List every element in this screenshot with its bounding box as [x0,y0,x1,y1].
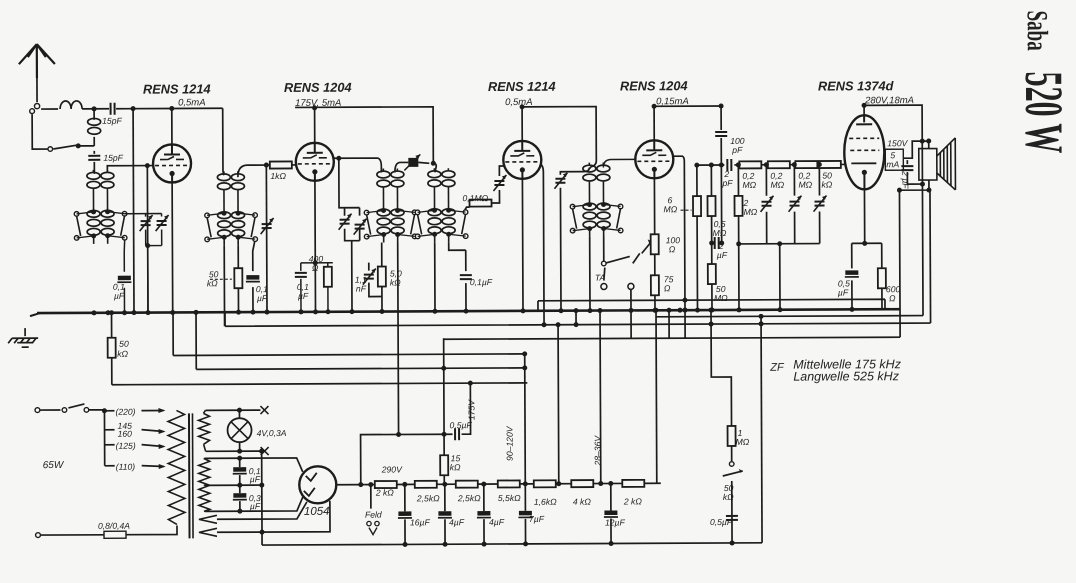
svg-text:50: 50 [119,339,129,349]
svg-text:kΩ: kΩ [450,462,461,472]
svg-text:280V,18mA: 280V,18mA [864,95,914,106]
svg-text:MΩ: MΩ [798,180,812,190]
svg-text:90–120V: 90–120V [505,425,515,461]
svg-text:kΩ: kΩ [723,492,734,502]
svg-text:MΩ: MΩ [770,180,784,190]
svg-text:4 kΩ: 4 kΩ [573,497,592,507]
svg-text:0,5mA: 0,5mA [178,97,206,108]
svg-text:0,8/0,4A: 0,8/0,4A [98,521,130,531]
svg-text:2 µF: 2 µF [900,170,910,189]
svg-text:4µF: 4µF [489,517,505,527]
svg-text:1054: 1054 [304,506,330,518]
svg-text:pF: pF [731,145,743,155]
svg-text:µF: µF [250,474,261,484]
svg-text:1kΩ: 1kΩ [270,171,286,181]
svg-text:µF: µF [838,287,849,297]
svg-text:(110): (110) [116,462,136,472]
svg-text:RENS 1204: RENS 1204 [620,78,688,93]
svg-text:2,5kΩ: 2,5kΩ [457,493,481,503]
svg-text:ZF: ZF [769,362,785,374]
svg-text:kΩ: kΩ [207,278,218,288]
svg-text:16µF: 16µF [410,517,431,527]
svg-text:15pF: 15pF [102,116,122,126]
svg-text:15pF: 15pF [103,153,123,163]
svg-text:MΩ: MΩ [713,228,727,238]
svg-text:2 kΩ: 2 kΩ [623,496,643,506]
svg-text:0,5µF: 0,5µF [449,420,472,430]
svg-text:µF: µF [717,250,728,260]
svg-text:0,5µF: 0,5µF [710,517,733,527]
svg-text:TA: TA [595,273,606,283]
svg-text:µF: µF [257,293,268,303]
svg-text:MΩ: MΩ [742,180,756,190]
svg-text:28–36V: 28–36V [593,435,603,467]
svg-text:kΩ: kΩ [117,349,128,359]
svg-text:4V,0,3A: 4V,0,3A [257,428,287,438]
svg-text:12µF: 12µF [605,517,626,527]
svg-text:Feld: Feld [365,510,382,520]
svg-text:160: 160 [118,429,133,439]
svg-text:µF: µF [250,501,261,511]
svg-text:0,5mA: 0,5mA [505,97,533,108]
svg-text:0,15mA: 0,15mA [656,96,689,107]
svg-text:MΩ: MΩ [736,437,750,447]
svg-text:mA: mA [886,159,899,169]
svg-text:pF: pF [721,178,733,188]
svg-text:Langwelle 525 kHz: Langwelle 525 kHz [793,369,899,383]
svg-text:RENS 1374d: RENS 1374d [818,78,895,93]
svg-text:0,1MΩ: 0,1MΩ [462,193,488,203]
svg-text:RENS 1204: RENS 1204 [284,80,352,95]
svg-text:Saba: Saba [1021,10,1053,51]
svg-text:175V: 175V [466,399,476,420]
svg-text:150V: 150V [887,138,908,148]
svg-text:Ω: Ω [669,244,676,254]
svg-text:MΩ: MΩ [744,207,758,217]
svg-text:1,6kΩ: 1,6kΩ [534,497,557,507]
svg-text:5,5kΩ: 5,5kΩ [498,493,521,503]
svg-text:µF: µF [298,291,309,301]
svg-text:RENS 1214: RENS 1214 [143,81,211,96]
svg-text:(125): (125) [116,441,136,451]
svg-text:µF: µF [114,291,125,301]
svg-text:MΩ: MΩ [664,204,678,214]
svg-text:Ω: Ω [312,263,319,273]
svg-text:2 kΩ: 2 kΩ [375,487,395,497]
svg-text:65W: 65W [43,460,65,471]
svg-text:2,5kΩ: 2,5kΩ [416,493,440,503]
svg-text:520 W: 520 W [1014,71,1074,153]
svg-text:Ω: Ω [664,283,671,293]
svg-text:MΩ: MΩ [714,293,728,303]
svg-text:kΩ: kΩ [390,277,401,287]
svg-text:(220): (220) [115,407,135,417]
svg-text:RENS 1214: RENS 1214 [488,79,556,94]
svg-text:4µF: 4µF [449,517,465,527]
svg-text:nF: nF [356,284,367,294]
svg-text:7µF: 7µF [529,514,545,524]
svg-text:Ω: Ω [889,293,896,303]
svg-text:290V: 290V [381,464,403,474]
svg-text:0,1µF: 0,1µF [470,277,493,287]
svg-text:175V, 5mA: 175V, 5mA [295,98,341,109]
svg-text:kΩ: kΩ [821,179,832,189]
